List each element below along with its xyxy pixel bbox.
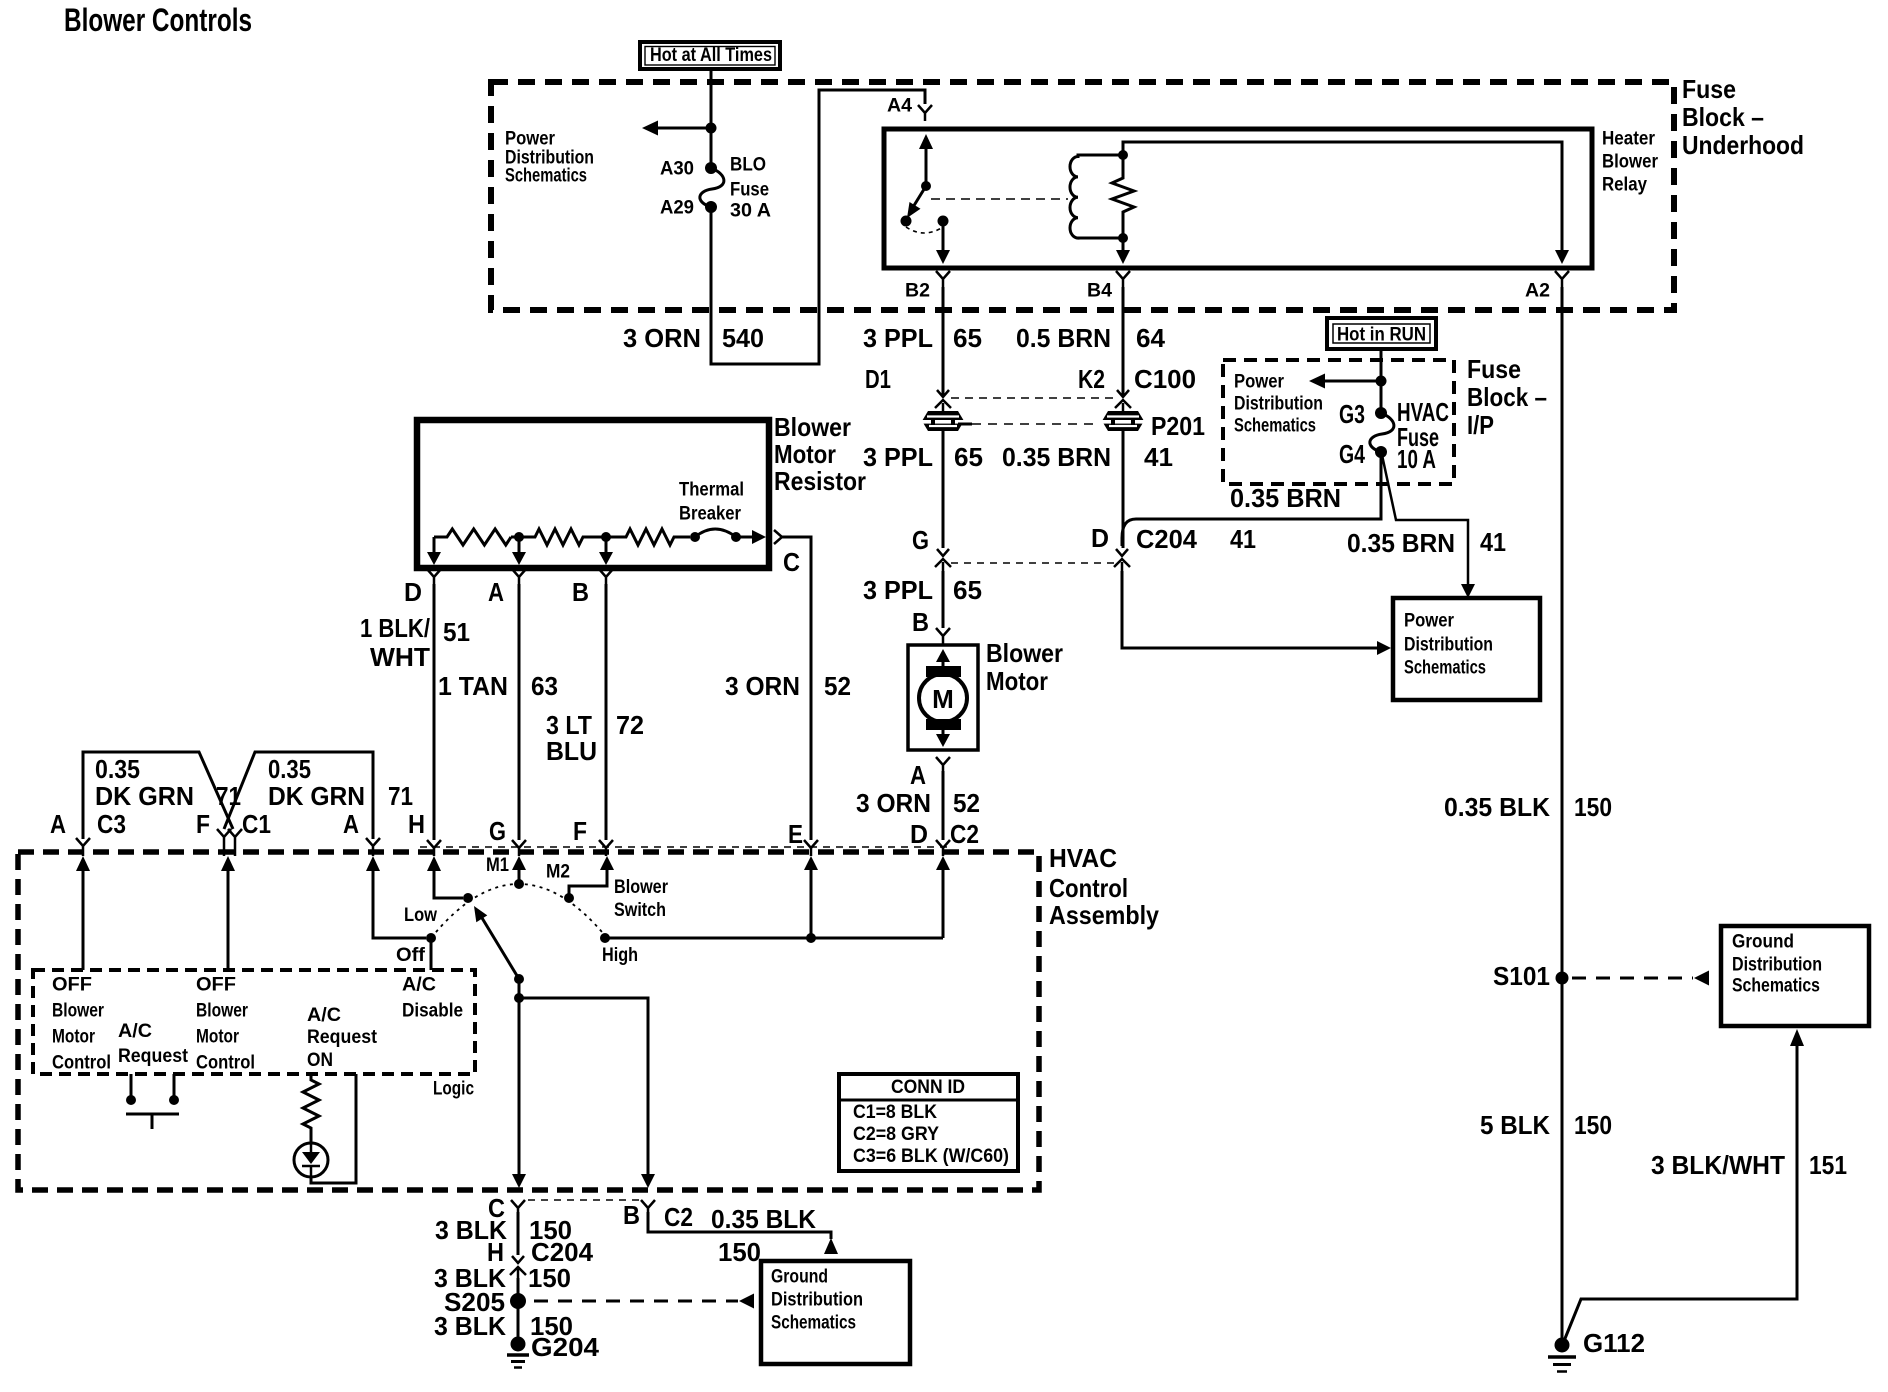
svg-text:M2: M2 [546,861,570,883]
grommet P201 left [921,411,972,431]
svg-text:C100: C100 [1134,364,1196,394]
connector C204 bottom interface [487,1237,594,1278]
wire A resistor to HVAC G [518,584,521,840]
label 3 BLK 150 (3) [434,1311,573,1341]
dashed box Logic [33,970,475,1074]
pin B resistor chevron [572,569,613,607]
svg-text:41: 41 [1144,442,1173,472]
svg-text:C: C [783,547,800,577]
wire Off contact to logic [430,938,433,970]
svg-text:Fuse: Fuse [1682,74,1736,104]
svg-text:OFF: OFF [196,974,236,996]
svg-text:B: B [912,607,929,637]
pin D chevron (C2) [910,819,979,856]
wire B2 to C100 [942,287,945,397]
contact M1 [486,854,526,889]
wire B (C2) to ground distribution [648,1202,838,1254]
pushbutton A/C request switch [126,1074,179,1129]
svg-text:Blower: Blower [52,1000,104,1022]
svg-text:M1: M1 [486,854,509,876]
pin A resistor chevron [488,569,526,607]
svg-text:A2: A2 [1525,280,1550,302]
label 0.5 BRN 64 (B4 wire) [1016,323,1166,353]
box Blower Motor Resistor [417,420,769,568]
grommet P201 right [1101,411,1205,441]
svg-text:B: B [623,1200,640,1230]
arrow into HVAC at A (C3) [76,856,90,970]
svg-text:Schematics: Schematics [505,165,587,187]
svg-text:0.5 BRN: 0.5 BRN [1016,323,1111,353]
svg-text:A: A [50,809,66,839]
svg-text:Blower: Blower [986,638,1063,668]
svg-text:Disable: Disable [402,1000,463,1022]
svg-text:Power: Power [1234,371,1284,393]
svg-text:Blower: Blower [1602,151,1658,173]
wire C204 G to blower motor B [942,571,945,628]
svg-text:DK GRN: DK GRN [268,781,365,811]
svg-text:0.35 BLK: 0.35 BLK [1444,792,1550,822]
wire B4 to C100 [1122,287,1125,397]
svg-text:63: 63 [531,671,558,701]
wire D resistor to HVAC H [433,584,436,840]
svg-text:51: 51 [443,617,470,647]
svg-text:WHT: WHT [370,642,430,672]
svg-text:A30: A30 [660,158,694,180]
relay coil [1070,155,1123,238]
svg-text:3 ORN: 3 ORN [725,671,800,701]
svg-text:Ground: Ground [1732,931,1794,953]
label 3 BLK 150 (2) [434,1263,571,1293]
svg-text:Off: Off [396,944,426,966]
svg-text:Blower Controls: Blower Controls [64,2,252,38]
resistor chain drop D [427,537,441,565]
wire G4 to C204 D (0.35 BRN 41) [1122,452,1381,546]
label 3 PPL 65 (below P201) [863,442,983,472]
svg-text:Control: Control [1049,873,1128,903]
resistor (A/C request ON) [303,1074,319,1143]
wire LED return loop [311,1074,356,1183]
svg-text:3 BLK/WHT: 3 BLK/WHT [1651,1150,1785,1180]
svg-text:71: 71 [388,781,413,811]
label Blower Switch [614,876,668,921]
svg-text:Motor: Motor [196,1026,239,1048]
relay internal wire to A2 [1123,142,1562,250]
svg-text:30 A: 30 A [730,200,771,222]
label box Hot in RUN [1327,318,1436,349]
table CONN ID [839,1074,1018,1171]
svg-text:150: 150 [1574,1110,1612,1140]
svg-text:Request: Request [118,1045,188,1067]
svg-text:3 ORN: 3 ORN [856,788,931,818]
svg-text:D: D [404,577,422,607]
svg-text:High: High [602,944,638,966]
pin G chevron [489,816,526,856]
label Power Distribution Schematics (I/P) [1234,371,1323,437]
svg-text:F: F [196,809,210,839]
svg-text:1 BLK/: 1 BLK/ [360,613,430,643]
wire wiper to pin C [512,998,526,1188]
label box Hot at All Times [640,42,780,69]
label A/C Request ON [307,1004,377,1071]
wire B resistor to HVAC F [605,584,608,840]
wire loop C1 to A [224,752,373,839]
dashed link S101 to ground distribution [1572,971,1709,986]
connector C204 pin G [912,525,951,571]
svg-text:Underhood: Underhood [1682,130,1804,160]
pin A2 chevron [1525,271,1569,302]
svg-text:C2: C2 [950,819,979,849]
svg-text:151: 151 [1809,1150,1847,1180]
svg-text:E: E [788,819,803,849]
wire 3 ORN 540 from fuse to A4 [711,90,925,364]
svg-text:I/P: I/P [1467,410,1494,440]
label OFF Blower Motor Control (left) [52,974,111,1074]
svg-text:C204: C204 [1136,524,1198,554]
svg-text:Schematics: Schematics [1234,415,1316,437]
svg-text:C3=6 BLK (W/C60): C3=6 BLK (W/C60) [853,1145,1009,1167]
blower switch rotary arc [431,884,607,938]
label Fuse Block - Underhood [1682,74,1804,160]
svg-text:B2: B2 [905,280,930,302]
svg-text:64: 64 [1136,323,1166,353]
svg-text:Schematics: Schematics [771,1312,856,1334]
svg-text:Schematics: Schematics [1732,975,1820,997]
blower motor box [908,645,978,750]
label Thermal Breaker [679,479,744,525]
svg-text:Blower: Blower [614,876,668,898]
label 0.35 BRN 41 (branch) [1347,527,1506,558]
svg-text:540: 540 [722,323,764,353]
svg-text:M: M [932,684,954,714]
svg-text:DK GRN: DK GRN [95,781,194,811]
fuse BLO 30A [660,154,771,222]
svg-text:Thermal: Thermal [679,479,744,501]
svg-text:Fuse: Fuse [730,179,769,201]
connector C100 pin D1 [865,364,951,412]
svg-text:150: 150 [1574,792,1612,822]
svg-text:Heater: Heater [1602,128,1655,150]
pin F/C1 crossing chevrons [217,829,242,856]
dashed box HVAC Control Assembly [18,852,1039,1190]
label Fuse Block - I/P [1467,354,1547,440]
svg-text:Power: Power [1404,610,1454,632]
box Ground Distribution Schematics (right) [1721,926,1869,1026]
svg-text:Distribution: Distribution [771,1289,863,1311]
label Heater Blower Relay [1602,128,1658,196]
svg-text:Blower: Blower [196,1000,248,1022]
svg-text:Resistor: Resistor [774,466,866,496]
svg-text:Relay: Relay [1602,174,1647,196]
label 0.35 BLK 150 (A2 wire) [1444,792,1612,822]
connector C100 dashed link [951,397,1115,399]
label Blower Motor Resistor [774,412,866,496]
pin E chevron [788,819,818,856]
connector line thin dashed C to B [528,1199,640,1201]
box Ground Distribution Schematics (left) [761,1261,910,1364]
label 3 BLK 150 (1) [435,1215,572,1245]
svg-text:CONN ID: CONN ID [891,1076,965,1098]
wire motor A to HVAC D [942,771,945,840]
pin C chevron [774,530,800,577]
connector C100 pin K2 [1078,364,1196,412]
label 3 LT BLU 72 [546,710,644,766]
thermal breaker [690,529,766,544]
svg-text:A: A [910,760,926,790]
svg-text:3 PPL: 3 PPL [863,575,933,605]
svg-text:D: D [1091,523,1109,553]
label Blower Motor [986,638,1063,696]
svg-text:Distribution: Distribution [1732,954,1822,976]
svg-text:0.35: 0.35 [95,754,140,784]
svg-text:3 BLK: 3 BLK [434,1311,506,1341]
svg-text:Fuse: Fuse [1467,354,1521,384]
svg-text:150: 150 [718,1237,761,1267]
svg-text:41: 41 [1480,527,1506,557]
svg-text:G112: G112 [1583,1328,1645,1358]
svg-text:Hot in RUN: Hot in RUN [1337,324,1426,346]
label A/C Request [118,1020,188,1067]
label OFF Blower Motor Control (mid) [196,974,255,1074]
svg-text:A: A [343,809,359,839]
svg-text:52: 52 [953,788,980,818]
pin B2 chevron [905,271,950,302]
relay coil output arrow B4 [1122,238,1125,252]
svg-text:0.35 BLK: 0.35 BLK [711,1204,816,1234]
svg-text:C1=8 BLK: C1=8 BLK [853,1101,937,1123]
svg-text:H: H [408,809,425,839]
LED indicator [294,1143,328,1177]
svg-text:Distribution: Distribution [1404,634,1493,656]
svg-text:Request: Request [307,1026,377,1048]
svg-text:Blower: Blower [774,412,851,442]
label 3 PPL 65 (motor feed) [863,575,982,605]
wire Hot in RUN to HVAC fuse [1380,349,1383,413]
dashed box Fuse Block - I/P [1223,360,1454,484]
svg-text:C3: C3 [97,809,126,839]
svg-text:P201: P201 [1151,411,1205,441]
drop arrow A [512,537,526,565]
svg-text:G204: G204 [531,1332,600,1362]
fuse HVAC 10A [1339,397,1449,474]
svg-text:B4: B4 [1087,280,1112,302]
pin B chevron (bottom) [623,1200,655,1230]
svg-text:G3: G3 [1339,399,1365,429]
pin D resistor chevron [404,569,441,607]
svg-text:B: B [572,577,589,607]
label 3 ORN 52 (C wire) [725,671,851,701]
svg-text:Breaker: Breaker [679,503,741,525]
wire wiper to pin B [519,998,655,1188]
wire K2 to C204 D [1122,431,1125,548]
svg-text:10 A: 10 A [1397,444,1436,474]
wire C204 D to power distribution box [1122,571,1377,648]
svg-text:3 ORN: 3 ORN [623,323,701,353]
svg-text:65: 65 [953,323,982,353]
svg-text:G: G [489,816,506,846]
svg-text:52: 52 [824,671,851,701]
node junction at A30 feed [706,123,717,134]
label 1 TAN 63 [438,671,558,701]
label 1 BLK/WHT 51 [360,613,470,672]
relay coil resistor [1112,150,1134,243]
svg-text:S101: S101 [1493,961,1550,991]
wire to S205 [517,1278,520,1344]
dashed link S205 to ground distribution [534,1294,754,1309]
label 0.35 BRN 41 (below P201) [1002,442,1173,472]
svg-text:A4: A4 [887,95,912,117]
arrow into HVAC at F (C1) [221,856,235,970]
svg-text:G: G [912,525,929,555]
splice S101 [1493,961,1569,991]
svg-text:0.35: 0.35 [268,754,311,784]
svg-text:5 BLK: 5 BLK [1480,1110,1550,1140]
svg-text:HVAC: HVAC [1049,843,1117,873]
svg-text:OFF: OFF [52,974,92,996]
svg-text:Block –: Block – [1682,102,1764,132]
pin A right chevron [366,838,380,856]
label 3 ORN 540 [623,323,764,353]
pin B blower motor [912,607,950,645]
svg-text:Assembly: Assembly [1049,900,1159,930]
svg-text:0.35 BRN: 0.35 BRN [1002,442,1111,472]
svg-text:Switch: Switch [614,899,666,921]
wire G4 branch to power distribution box [1382,455,1468,584]
label 3 ORN 52 (motor ground side) [856,788,980,818]
pin H chevron [408,809,441,856]
contact Off [426,933,436,943]
svg-text:Motor: Motor [774,439,836,469]
svg-text:Distribution: Distribution [1234,393,1323,415]
label Power Distribution Schematics (underhood) [505,128,594,187]
svg-text:1 TAN: 1 TAN [438,671,508,701]
svg-text:C2=8 GRY: C2=8 GRY [853,1123,939,1145]
drop arrow B [599,537,613,565]
ground G204 [507,1332,600,1368]
ground G112 [1548,1328,1645,1372]
wire C to S205 [517,1212,520,1255]
svg-text:F: F [573,816,587,846]
resistor R3 [606,529,690,545]
label 0.35 DK GRN 71 C1 [196,754,413,839]
contact High wire to E and D [600,856,950,943]
wire A2 to G112 [1561,287,1564,1344]
connector line C2 thin dashed [420,846,950,848]
svg-text:D: D [910,819,928,849]
svg-text:K2: K2 [1078,364,1105,394]
relay box Heater Blower Relay [884,129,1592,268]
svg-text:150: 150 [528,1263,571,1293]
svg-text:ON: ON [307,1049,333,1071]
node junction I/P feed [1376,376,1387,387]
svg-text:41: 41 [1230,524,1256,554]
svg-text:A/C: A/C [118,1020,152,1042]
box Power Distribution Schematics [1393,598,1540,700]
wire loop C3-A to C1 [83,752,233,839]
splice S205 [444,1287,526,1317]
dashed box Fuse Block - Underhood [491,82,1674,310]
svg-text:C1: C1 [242,809,271,839]
wire 3 BLK/WHT 151 from ground distribution to G112 [1564,1029,1804,1341]
svg-text:A29: A29 [660,197,694,219]
wire C to HVAC E [782,537,811,840]
pin A blower motor [910,757,950,790]
svg-text:BLU: BLU [546,736,597,766]
motor M symbol [919,649,967,747]
switch wiper arrow [474,906,524,984]
svg-text:65: 65 [953,575,982,605]
node A junction [514,532,524,542]
svg-text:3 PPL: 3 PPL [863,323,933,353]
svg-text:Schematics: Schematics [1404,657,1486,679]
svg-text:C2: C2 [664,1202,693,1232]
label A/C Disable [402,974,463,1022]
resistor R2 [511,529,606,545]
svg-text:Motor: Motor [52,1026,95,1048]
label 3 BLK/WHT 151 [1651,1150,1847,1180]
svg-text:71: 71 [216,781,241,811]
label 5 BLK 150 [1480,1110,1612,1140]
pin A of C3 chevron [76,838,90,856]
svg-text:A/C: A/C [307,1004,341,1026]
label 0.35 DK GRN 71 C3 [50,754,241,839]
arrow to power distribution (I/P) [1324,380,1381,383]
label 0.35 BLK 150 (C2 wire) [711,1204,816,1267]
svg-text:A/C: A/C [402,974,436,996]
arrow into HVAC at H [427,856,463,898]
svg-text:Block –: Block – [1467,382,1547,412]
svg-text:72: 72 [616,710,644,740]
svg-text:A: A [488,577,504,607]
svg-text:65: 65 [954,442,983,472]
dashed link P201 [972,423,1096,425]
contact Low [463,893,473,903]
svg-text:Control: Control [52,1052,111,1074]
svg-text:3 PPL: 3 PPL [863,442,933,472]
resistor R1 [434,529,511,545]
svg-text:D1: D1 [865,364,891,394]
pin A4 connector chevron [887,95,932,122]
svg-text:Logic: Logic [433,1078,474,1100]
svg-text:G4: G4 [1339,439,1365,469]
pin F chevron [573,816,613,856]
svg-text:Hot at All Times: Hot at All Times [650,44,772,66]
wiper output node [514,979,524,1003]
pin B4 chevron [1087,271,1130,302]
contact M2 [546,856,614,903]
svg-text:0.35 BRN: 0.35 BRN [1230,483,1341,513]
svg-text:Motor: Motor [986,666,1048,696]
relay switch arm [901,134,951,264]
svg-text:BLO: BLO [730,154,766,176]
relay coil dashed link [931,198,1068,200]
svg-text:Control: Control [196,1052,255,1074]
arrow into HVAC at A (right) [366,856,426,938]
label 3 PPL 65 (B2 wire) [863,323,982,353]
svg-text:Ground: Ground [771,1266,828,1288]
svg-text:0.35 BRN: 0.35 BRN [1347,528,1455,558]
connector C204 dashed link [951,562,1114,564]
label C204 41 [1136,524,1256,554]
label HVAC Control Assembly [1049,843,1159,930]
connector C204 pin D [1091,523,1130,571]
svg-text:Low: Low [404,904,438,926]
node B junction [601,532,611,542]
wire hot-at-all-times feed down to BLO fuse [710,70,713,168]
arrow to power distribution schematics [656,127,711,130]
pin C chevron (bottom) [488,1193,525,1223]
wire D1 to C204 G [942,431,945,548]
